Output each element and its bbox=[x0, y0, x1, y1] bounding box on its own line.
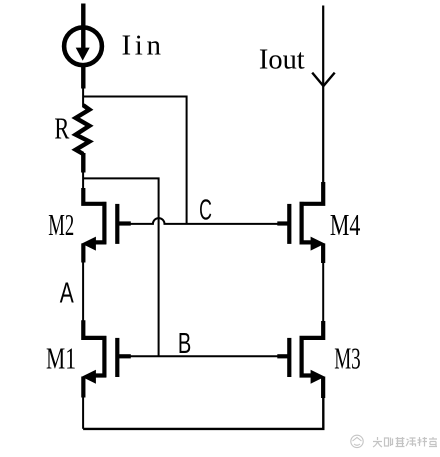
resistor R bbox=[76, 105, 90, 154]
transistor M4 gate bar bbox=[287, 204, 291, 244]
transistor M1 source arrow bbox=[82, 370, 96, 384]
transistor M4 channel bar bbox=[300, 202, 304, 244]
transistor M4 source lead bbox=[300, 240, 317, 244]
bottom rail wire bbox=[83, 398, 323, 429]
gate line C from M2 to M4 with hop bbox=[130, 218, 278, 224]
wire below current source bbox=[81, 65, 85, 89]
svg-text:M3: M3 bbox=[334, 341, 361, 376]
wire Iout line bbox=[322, 6, 324, 183]
transistor M4 source arrow bbox=[311, 237, 325, 251]
svg-text:Iout: Iout bbox=[259, 43, 305, 75]
transistor M3 gate stub bbox=[277, 354, 289, 358]
transistor M2 source lead bbox=[90, 240, 106, 244]
watermark logo bbox=[351, 435, 363, 447]
transistor M2 gate bar bbox=[115, 204, 119, 244]
current source U1 circle bbox=[64, 27, 102, 65]
svg-text:M2: M2 bbox=[48, 207, 74, 242]
svg-text:Iin: Iin bbox=[122, 30, 162, 62]
current source arrow bbox=[76, 48, 90, 61]
transistor M3 channel bar bbox=[300, 336, 304, 377]
wire between M4 and M3 bbox=[322, 263, 324, 321]
transistor M1 channel bar bbox=[102, 336, 106, 377]
wire node A segment bbox=[82, 263, 84, 321]
transistor M3 source arrow bbox=[311, 370, 325, 384]
transistor M1 source lead bbox=[90, 373, 106, 377]
wire thin segment at node below R bbox=[82, 173, 84, 190]
svg-text:B: B bbox=[178, 328, 191, 360]
transistor M1 gate bar bbox=[115, 338, 119, 377]
transistor M3 drain lead bbox=[300, 321, 324, 338]
transistor M2 gate stub bbox=[117, 221, 131, 225]
svg-text:A: A bbox=[60, 277, 74, 309]
Iout arrowhead bbox=[312, 73, 335, 86]
transistor M4 drain lead bbox=[300, 182, 324, 204]
transistor M2 drain lead bbox=[83, 188, 106, 204]
wire branch from Iin node to C bbox=[83, 97, 187, 224]
wire top feed into current source bbox=[81, 4, 85, 49]
transistor M3 source lead bbox=[300, 373, 317, 377]
svg-text:M4: M4 bbox=[330, 207, 361, 242]
gate line B from M1 to M3 bbox=[130, 355, 278, 357]
wire thin segment at node above R bbox=[82, 89, 84, 107]
transistor M2 source arrow bbox=[82, 237, 96, 251]
watermark text 大印蓝海科技 bbox=[373, 437, 437, 447]
transistor M1 gate stub bbox=[117, 354, 131, 358]
svg-text:C: C bbox=[199, 195, 212, 227]
wire M1 source to bottom rail bbox=[82, 398, 84, 429]
transistor M4 gate stub bbox=[277, 221, 289, 225]
svg-text:M1: M1 bbox=[46, 340, 76, 375]
wire branch from R bottom node down to B bbox=[83, 178, 159, 356]
transistor M2 channel bar bbox=[102, 202, 106, 244]
transistor M1 drain lead bbox=[83, 320, 106, 338]
transistor M3 gate bar bbox=[287, 338, 291, 377]
svg-text:R: R bbox=[54, 111, 69, 146]
